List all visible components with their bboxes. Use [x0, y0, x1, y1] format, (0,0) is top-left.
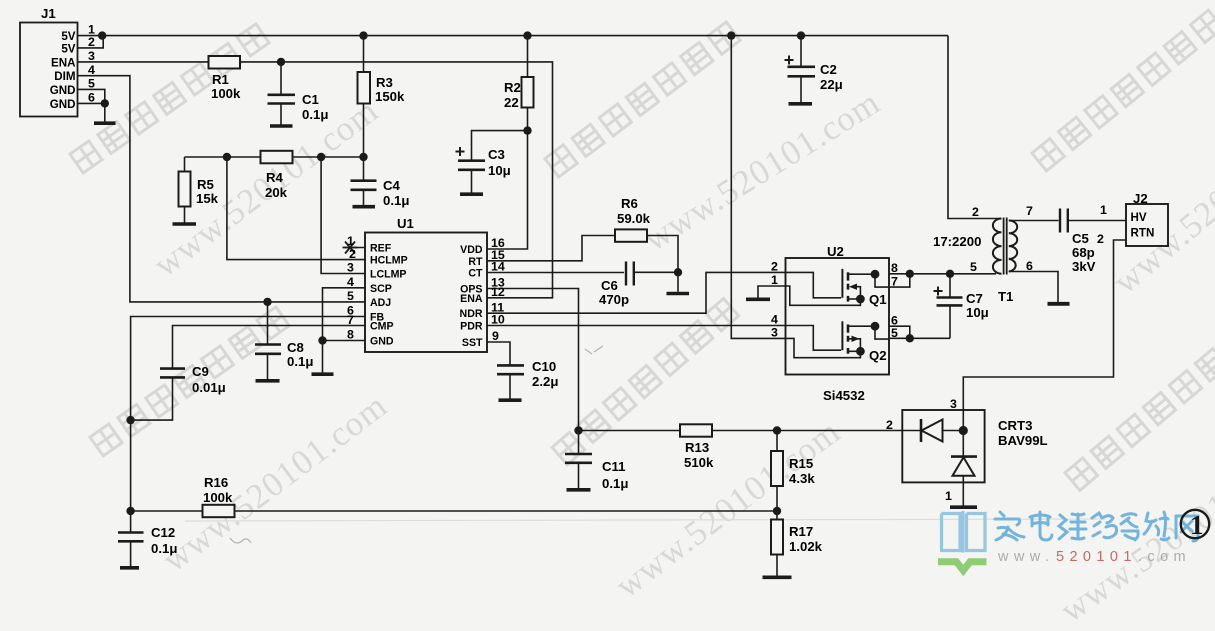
wire R16 sense line [131, 510, 777, 512]
svg-text:C1: C1 [302, 92, 319, 107]
J1 pin names [50, 30, 76, 111]
svg-text:R15: R15 [789, 456, 813, 471]
logo url www.520101.com [997, 549, 1191, 565]
svg-text:510k: 510k [684, 455, 714, 470]
capacitor C9 [131, 369, 185, 421]
svg-text:Q1: Q1 [869, 292, 887, 307]
wire J1 pin1 to 5V rail [78, 35, 103, 37]
wire ENA line J1 pin3 to U1 pin12 [78, 62, 553, 298]
svg-text:2.2μ: 2.2μ [532, 374, 558, 389]
svg-text:C12: C12 [151, 525, 175, 540]
svg-text:3: 3 [88, 49, 95, 63]
svg-text:C11: C11 [602, 459, 625, 474]
wire T1 pin6 to ground [1009, 272, 1058, 303]
svg-text:3: 3 [347, 261, 354, 275]
svg-text:Q2: Q2 [869, 348, 887, 363]
svg-text:0.1μ: 0.1μ [383, 193, 409, 208]
svg-text:SCP: SCP [370, 283, 392, 295]
svg-text:U2: U2 [827, 244, 844, 259]
watermark row 11 [1060, 322, 1215, 499]
chip U2 box [786, 258, 890, 375]
svg-text:C2: C2 [820, 62, 837, 77]
U2 internal wire pin2 to Q1 gate [786, 272, 842, 297]
svg-text:T1: T1 [998, 289, 1013, 304]
svg-text:2: 2 [972, 205, 979, 219]
wire rail corner down to T1 pin2 [948, 36, 1000, 219]
diode D2 vertical [951, 431, 977, 506]
svg-text:68p: 68p [1072, 245, 1095, 260]
wire 5V top rail [102, 35, 948, 37]
svg-text:VDD: VDD [460, 244, 483, 256]
svg-text:59.0k: 59.0k [617, 211, 651, 226]
svg-text:NDR: NDR [460, 308, 483, 320]
U1 REF pin stub and star [343, 242, 366, 254]
svg-text:GND: GND [50, 98, 76, 111]
svg-text:15k: 15k [196, 191, 219, 206]
transistor Q1 N-channel [842, 269, 889, 304]
diode D1 horizontal [902, 419, 963, 442]
capacitor C4 [351, 157, 377, 207]
resistor R17 [771, 511, 783, 576]
svg-text:0.1μ: 0.1μ [302, 107, 328, 122]
wire U1 pin10 PDR to U2 pin4 [487, 325, 786, 327]
svg-text:7: 7 [891, 275, 898, 289]
wire J1 pin5 joins pin6 [78, 89, 105, 103]
resistor R3 [358, 36, 371, 157]
svg-text:2: 2 [1097, 232, 1104, 246]
svg-text:0.1μ: 0.1μ [602, 476, 628, 491]
svg-text:HCLMP: HCLMP [370, 255, 408, 267]
svg-text:1: 1 [945, 489, 952, 503]
svg-text:1: 1 [1190, 510, 1204, 540]
diode pack CRT3 BAV99L box [902, 410, 984, 482]
svg-text:1: 1 [1100, 203, 1107, 217]
svg-text:10μ: 10μ [488, 163, 511, 178]
resistor R4 [261, 151, 293, 164]
svg-text:R4: R4 [266, 170, 284, 185]
svg-text:J2: J2 [1133, 191, 1148, 206]
svg-text:CMP: CMP [370, 321, 394, 333]
watermark row 3 [85, 303, 298, 465]
watermark row 8 [1106, 98, 1215, 302]
svg-text:Si4532: Si4532 [823, 388, 865, 403]
svg-text:R17: R17 [789, 524, 813, 539]
svg-text:RT: RT [468, 256, 483, 268]
wire T1 pin7 to C5 [1009, 220, 1059, 222]
wire 5V rail down to U2 pin3 [731, 36, 785, 339]
svg-text:C4: C4 [383, 178, 401, 193]
svg-text:R2: R2 [504, 80, 521, 95]
wire U2 pin5 to C7 bottom [889, 337, 950, 339]
svg-text:5V: 5V [61, 43, 75, 56]
capacitor C1 [268, 63, 296, 126]
svg-text:9: 9 [492, 329, 499, 343]
logo green swoosh [938, 562, 987, 571]
wire U1 pin14 CT to C6 [487, 272, 624, 274]
wire LCLMP from R4 right node [321, 157, 365, 274]
svg-text:6: 6 [88, 91, 95, 105]
watermark row 10 [608, 412, 848, 607]
ground R17 [763, 575, 792, 579]
svg-text:0.01μ: 0.01μ [192, 380, 226, 395]
svg-text:1: 1 [771, 273, 778, 287]
svg-text:CT: CT [468, 268, 483, 280]
svg-text:www.: www. [997, 549, 1054, 565]
svg-text:GND: GND [370, 336, 394, 348]
connector J2 box [1126, 204, 1168, 246]
svg-text:4: 4 [771, 313, 778, 327]
capacitor C5 [1060, 209, 1126, 233]
wire U1 pin15 RT to R6 [487, 236, 615, 261]
svg-text:5: 5 [891, 326, 898, 340]
wire R6 right to C6 node and ground [647, 236, 678, 273]
resistor R16 [203, 505, 235, 517]
svg-text:2: 2 [771, 260, 778, 274]
svg-text:3: 3 [950, 397, 957, 411]
svg-text:2: 2 [349, 247, 356, 261]
wire DIM line J1 pin4 to U1 pin5 ADJ [78, 76, 366, 302]
ground BAV99 pin1 [950, 505, 977, 509]
svg-text:22μ: 22μ [820, 77, 843, 92]
wire R2 bottom to C3 and VDD [472, 131, 528, 160]
svg-text:R13: R13 [685, 440, 709, 455]
wire J1 pin6 to ground [78, 103, 105, 121]
capacitor C2 electrolytic [785, 36, 816, 104]
svg-text:2: 2 [886, 418, 893, 432]
svg-text:0.1μ: 0.1μ [151, 541, 177, 556]
svg-text:3kV: 3kV [1072, 259, 1096, 274]
svg-text:R5: R5 [197, 177, 214, 192]
resistor R1 [209, 56, 241, 69]
watermark row 7 [1027, 6, 1215, 180]
watermark row 6 [637, 82, 887, 259]
resistor R5 [173, 157, 197, 224]
svg-text:PDR: PDR [460, 321, 483, 333]
ground U1 GND [312, 372, 334, 376]
svg-text:ENA: ENA [51, 56, 76, 69]
U2 internal wire pin3 to Q2 source [786, 338, 861, 357]
wire U1 pin7 CMP to C9 top [173, 326, 366, 368]
wire U2 pin7 joins pin8 [889, 274, 910, 287]
svg-text:C8: C8 [287, 340, 304, 355]
watermark row 9 [547, 294, 747, 474]
svg-text:5V: 5V [61, 30, 75, 43]
svg-text:C3: C3 [488, 147, 505, 162]
svg-text:C10: C10 [532, 359, 556, 374]
capacitor C6 [626, 262, 678, 286]
svg-text:3: 3 [771, 326, 778, 340]
capacitor C11 [565, 431, 592, 490]
svg-text:J1: J1 [41, 6, 56, 21]
watermark row 12 [1053, 443, 1215, 631]
svg-text:150k: 150k [375, 89, 405, 104]
resistor R6 [615, 229, 647, 241]
svg-text:7: 7 [347, 313, 354, 327]
watermark row 5 [540, 18, 749, 186]
U2 internal wire pin4 to Q2 gate [786, 326, 842, 351]
svg-text:RTN: RTN [1131, 227, 1155, 240]
wire HCLMP from R4/R5 node [227, 157, 365, 260]
svg-text:C6: C6 [601, 278, 618, 293]
resistor R2 [522, 36, 534, 131]
svg-text:REF: REF [370, 242, 392, 254]
watermark row 4 [155, 386, 395, 581]
ground T1 pin6 [1048, 302, 1070, 306]
svg-text:4: 4 [347, 275, 354, 289]
svg-text:GND: GND [50, 84, 76, 97]
resistor R13 [680, 424, 712, 436]
svg-text:100k: 100k [203, 490, 233, 505]
capacitor C7 electrolytic [934, 274, 963, 339]
svg-text:R3: R3 [376, 75, 393, 90]
capacitor C12 [118, 511, 144, 568]
svg-text:HV: HV [1131, 211, 1147, 224]
circled number 1 [1181, 510, 1209, 538]
svg-text:C5: C5 [1072, 231, 1089, 246]
svg-text:10μ: 10μ [966, 305, 989, 320]
svg-text:R1: R1 [212, 72, 229, 87]
watermark row 1 [65, 20, 278, 182]
wire U1 pin6 FB long vertical [131, 317, 365, 512]
svg-text:1: 1 [347, 234, 354, 248]
scan fold line [185, 519, 1105, 521]
svg-text:BAV99L: BAV99L [998, 433, 1048, 448]
svg-text:ENA: ENA [460, 293, 483, 305]
wire BAV99 pin3 inside [962, 410, 964, 431]
svg-text:5: 5 [88, 77, 95, 91]
svg-text:U1: U1 [397, 216, 414, 231]
svg-text:2: 2 [88, 35, 95, 49]
svg-text:R6: R6 [621, 196, 638, 211]
wire U2 pin6 joins pin5 [889, 326, 910, 338]
svg-text:8: 8 [347, 328, 354, 342]
svg-text:7: 7 [1026, 204, 1033, 218]
svg-text:17:2200: 17:2200 [933, 234, 981, 249]
wire J2 RTN to BAV99 pin3 [963, 240, 1126, 410]
ground J1 [94, 121, 116, 125]
wire U1 pin13 OPS down to feedback line [487, 289, 579, 431]
svg-text:8: 8 [891, 261, 898, 275]
capacitor C8 [255, 302, 281, 381]
svg-text:ADJ: ADJ [370, 297, 391, 309]
capacitor C3 electrolytic [456, 147, 486, 194]
svg-text:LCLMP: LCLMP [370, 269, 406, 281]
ground U2 pin1 [746, 297, 770, 301]
svg-text:C7: C7 [966, 291, 983, 306]
wire feedback line OPS to BAV99 pin2 [579, 430, 903, 432]
svg-text:10: 10 [491, 313, 505, 327]
svg-text:4.3k: 4.3k [789, 471, 815, 486]
pencil noise marks [230, 346, 603, 543]
svg-text:.com: .com [1138, 549, 1191, 565]
svg-text:4: 4 [88, 63, 95, 77]
svg-text:14: 14 [491, 260, 505, 274]
wire SCP to GND node [323, 288, 366, 341]
svg-text:0.1μ: 0.1μ [287, 354, 313, 369]
svg-text:R16: R16 [204, 475, 228, 490]
svg-text:6: 6 [1026, 259, 1033, 273]
capacitor C10 [497, 365, 524, 400]
svg-text:1.02k: 1.02k [789, 539, 823, 554]
connector J1 box [20, 23, 78, 117]
transistor Q2 P-channel [842, 321, 889, 355]
J2 pin names [1131, 211, 1155, 240]
ground R6/C6 [667, 292, 690, 296]
watermark row 2 [146, 91, 386, 286]
logo book icon [942, 511, 986, 553]
wire U1 pin9 SST to C10 [487, 342, 510, 365]
svg-text:SST: SST [462, 337, 483, 349]
svg-text:5: 5 [347, 289, 354, 303]
wire U2 pin1 to ground [758, 286, 786, 298]
wire U1 pin11 NDR to U2 pin2 [487, 272, 786, 313]
svg-text:520101: 520101 [1056, 549, 1137, 565]
svg-text:100k: 100k [211, 86, 241, 101]
chip U1 box [365, 233, 487, 353]
wire mid node line R5/R4/R3 [185, 156, 364, 158]
svg-text:22: 22 [504, 95, 519, 110]
svg-text:DIM: DIM [54, 70, 75, 83]
wire J1 pin2 joins pin1 [78, 36, 104, 48]
svg-text:CRT3: CRT3 [998, 418, 1032, 433]
svg-text:5: 5 [970, 260, 977, 274]
wire U2 pin8 drain to T1 pin5 [889, 273, 996, 275]
svg-text:C9: C9 [192, 364, 209, 379]
logo blue chinese text 家电维修资料网 [995, 512, 1198, 541]
resistor R15 [771, 431, 783, 512]
transformer T1 [993, 218, 1017, 275]
svg-text:20k: 20k [265, 185, 288, 200]
U2 internal wire pin1 to Q1 source [786, 286, 861, 305]
svg-text:12: 12 [491, 285, 505, 299]
svg-text:470p: 470p [599, 292, 629, 307]
wire U1 GND pin to ground [323, 341, 366, 373]
